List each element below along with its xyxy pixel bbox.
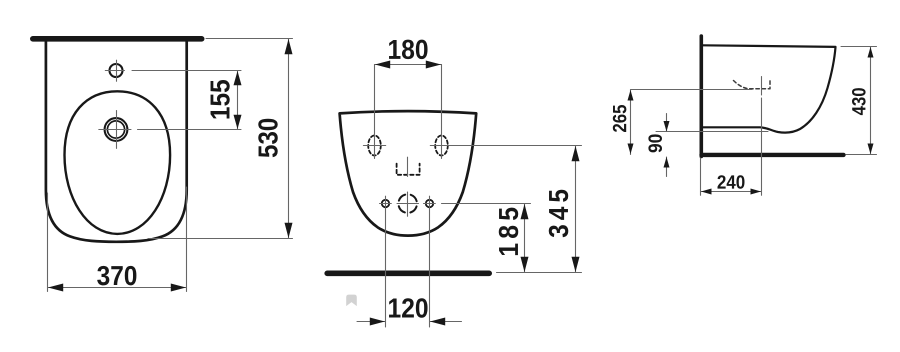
dim 345 arrows bbox=[572, 146, 580, 272]
watermark bookmark bbox=[346, 295, 357, 307]
dim 240 extension+line bbox=[701, 158, 762, 195]
dim 240 label bbox=[718, 175, 745, 189]
dim 155 label bbox=[211, 80, 230, 119]
dim 430 label bbox=[852, 88, 866, 115]
bolt hole left (dashed) bbox=[368, 136, 381, 156]
dim 90 extension+line bbox=[656, 114, 768, 177]
overflow dashed box bbox=[397, 164, 420, 175]
dim 430 extension+line bbox=[841, 47, 877, 155]
drain dashed circle (front) bbox=[398, 194, 417, 213]
dim 265 extension+line bbox=[631, 90, 753, 155]
dim 430 arrows bbox=[868, 47, 874, 154]
drain cross (front) bbox=[397, 192, 419, 216]
trap dashed outline bbox=[734, 81, 771, 89]
dim 90 arrows bbox=[664, 121, 670, 168]
dim 155 arrows bbox=[234, 71, 242, 129]
dim 180 arrows bbox=[375, 61, 441, 69]
drain centerline cross (side) bbox=[761, 77, 763, 196]
dim 185 label bbox=[499, 208, 518, 256]
bidet side profile bbox=[703, 45, 836, 132]
dim 530 extension+line bbox=[148, 39, 293, 239]
drain hole (two circles) bbox=[105, 118, 128, 141]
dim 265 arrows bbox=[628, 90, 634, 154]
overflow centerline bbox=[407, 157, 409, 176]
faucet centerlines bbox=[105, 60, 124, 81]
side hole right bbox=[426, 200, 433, 207]
inner basin rim bbox=[65, 91, 171, 234]
wall mounting bar (top view) bbox=[30, 36, 205, 42]
dim 120 label bbox=[389, 298, 428, 317]
dim 185 extension+line bbox=[442, 204, 531, 273]
dim 180 label bbox=[389, 40, 428, 59]
dim 530 label bbox=[258, 119, 277, 158]
drain centerlines bbox=[99, 111, 131, 149]
dim 345 label bbox=[549, 190, 568, 238]
floor line (side view) bbox=[702, 153, 844, 157]
floor line (front view) bbox=[327, 270, 489, 276]
bidet front outline bbox=[340, 111, 477, 236]
dim 90 label bbox=[648, 134, 662, 152]
dim 345 extension+line bbox=[451, 146, 582, 273]
dim 120 extension+line bbox=[357, 196, 462, 327]
side hole left bbox=[382, 200, 389, 207]
dim 370 extension+line bbox=[48, 187, 187, 292]
dim 265 label bbox=[613, 105, 627, 132]
bolt hole right (dashed) bbox=[435, 136, 448, 156]
dim 185 arrows bbox=[521, 204, 529, 272]
dim 370 label bbox=[97, 266, 136, 285]
side hole crosses bbox=[380, 203, 436, 205]
bolt hole centerlines bbox=[363, 145, 452, 147]
wall line (side view) bbox=[699, 36, 703, 157]
faucet hole bbox=[110, 64, 123, 77]
dim 155 extension+line bbox=[132, 71, 241, 130]
dim 370 arrows bbox=[48, 284, 186, 292]
bidet outer rim (top view) bbox=[46, 41, 187, 242]
dim 180 line bbox=[375, 65, 442, 159]
dim 240 arrows bbox=[701, 189, 761, 195]
dim 120 arrows bbox=[370, 318, 445, 326]
dim 530 arrows bbox=[285, 39, 293, 238]
